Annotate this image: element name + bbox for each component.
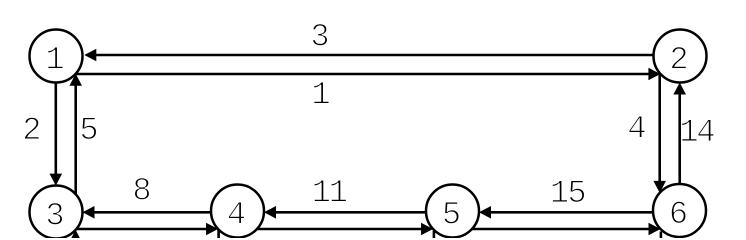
svg-text:2: 2	[669, 42, 688, 79]
wire edge 2 to 1	[90, 54, 654, 57]
arrowhead into node 4 (edge weight 11)	[264, 206, 276, 219]
wire edge 2 to 6	[658, 73, 661, 187]
arrowhead into node 5 (lower edge)	[421, 223, 433, 236]
svg-text:3: 3	[45, 198, 64, 235]
arrowhead into node 6 (edge weight 4)	[653, 181, 666, 193]
arrowhead into node 3 (edge weight 8)	[83, 206, 95, 219]
svg-text:3: 3	[310, 19, 329, 56]
node 2 circle	[654, 30, 707, 83]
svg-text:5: 5	[79, 112, 98, 149]
arrowhead into node 1 (edge weight 3)	[84, 49, 96, 62]
svg-text:4: 4	[696, 114, 715, 151]
arrowhead into node 2 (edge weight 14)	[673, 83, 686, 95]
node 4 circle	[211, 185, 264, 238]
svg-text:8: 8	[132, 173, 151, 210]
wire edge 6 to 2	[678, 89, 681, 185]
node 1 circle	[30, 30, 83, 83]
svg-text:4: 4	[227, 197, 246, 234]
wire stub below node 6	[660, 232, 663, 240]
svg-text:5: 5	[442, 197, 461, 234]
wire edge 4 to 3	[89, 211, 212, 214]
wire edge 3 to 1	[74, 80, 77, 194]
svg-text:4: 4	[627, 111, 646, 148]
svg-text:6: 6	[669, 196, 688, 233]
wire edge 6 to 5	[485, 211, 653, 214]
arrowhead into node 3 (edge weight 2)	[50, 174, 63, 186]
node 6 circle	[653, 184, 706, 237]
node 3 circle	[30, 186, 83, 239]
wire edge 4 to 5	[257, 228, 427, 231]
wire edge 5 to 4	[270, 211, 426, 214]
node 5 circle	[426, 185, 479, 238]
arrowhead into node 2 (edge weight 1)	[648, 68, 660, 81]
arrowhead into node 4 (lower edge)	[206, 223, 218, 236]
svg-text:1: 1	[550, 175, 569, 212]
svg-text:1: 1	[45, 42, 64, 79]
wire edge 1 to 3	[54, 83, 57, 180]
svg-text:5: 5	[567, 175, 586, 212]
wire stub below node 5	[433, 231, 436, 239]
wire stub below node 4	[217, 230, 220, 240]
wire edge 3 to 4	[76, 228, 212, 231]
arrowhead into node 5 (edge weight 15)	[479, 206, 491, 219]
svg-text:2: 2	[22, 112, 41, 149]
wire edge 1 to 2	[75, 73, 654, 76]
svg-text:1: 1	[329, 175, 348, 212]
arrowhead into node 6 (lower edge)	[649, 223, 661, 236]
wire edge 5 to 6	[472, 228, 655, 231]
arrowhead into node 3 from below (cut off)	[69, 230, 82, 240]
svg-text:1: 1	[311, 77, 330, 114]
arrowhead into node 1 (edge weight 5)	[69, 74, 82, 86]
